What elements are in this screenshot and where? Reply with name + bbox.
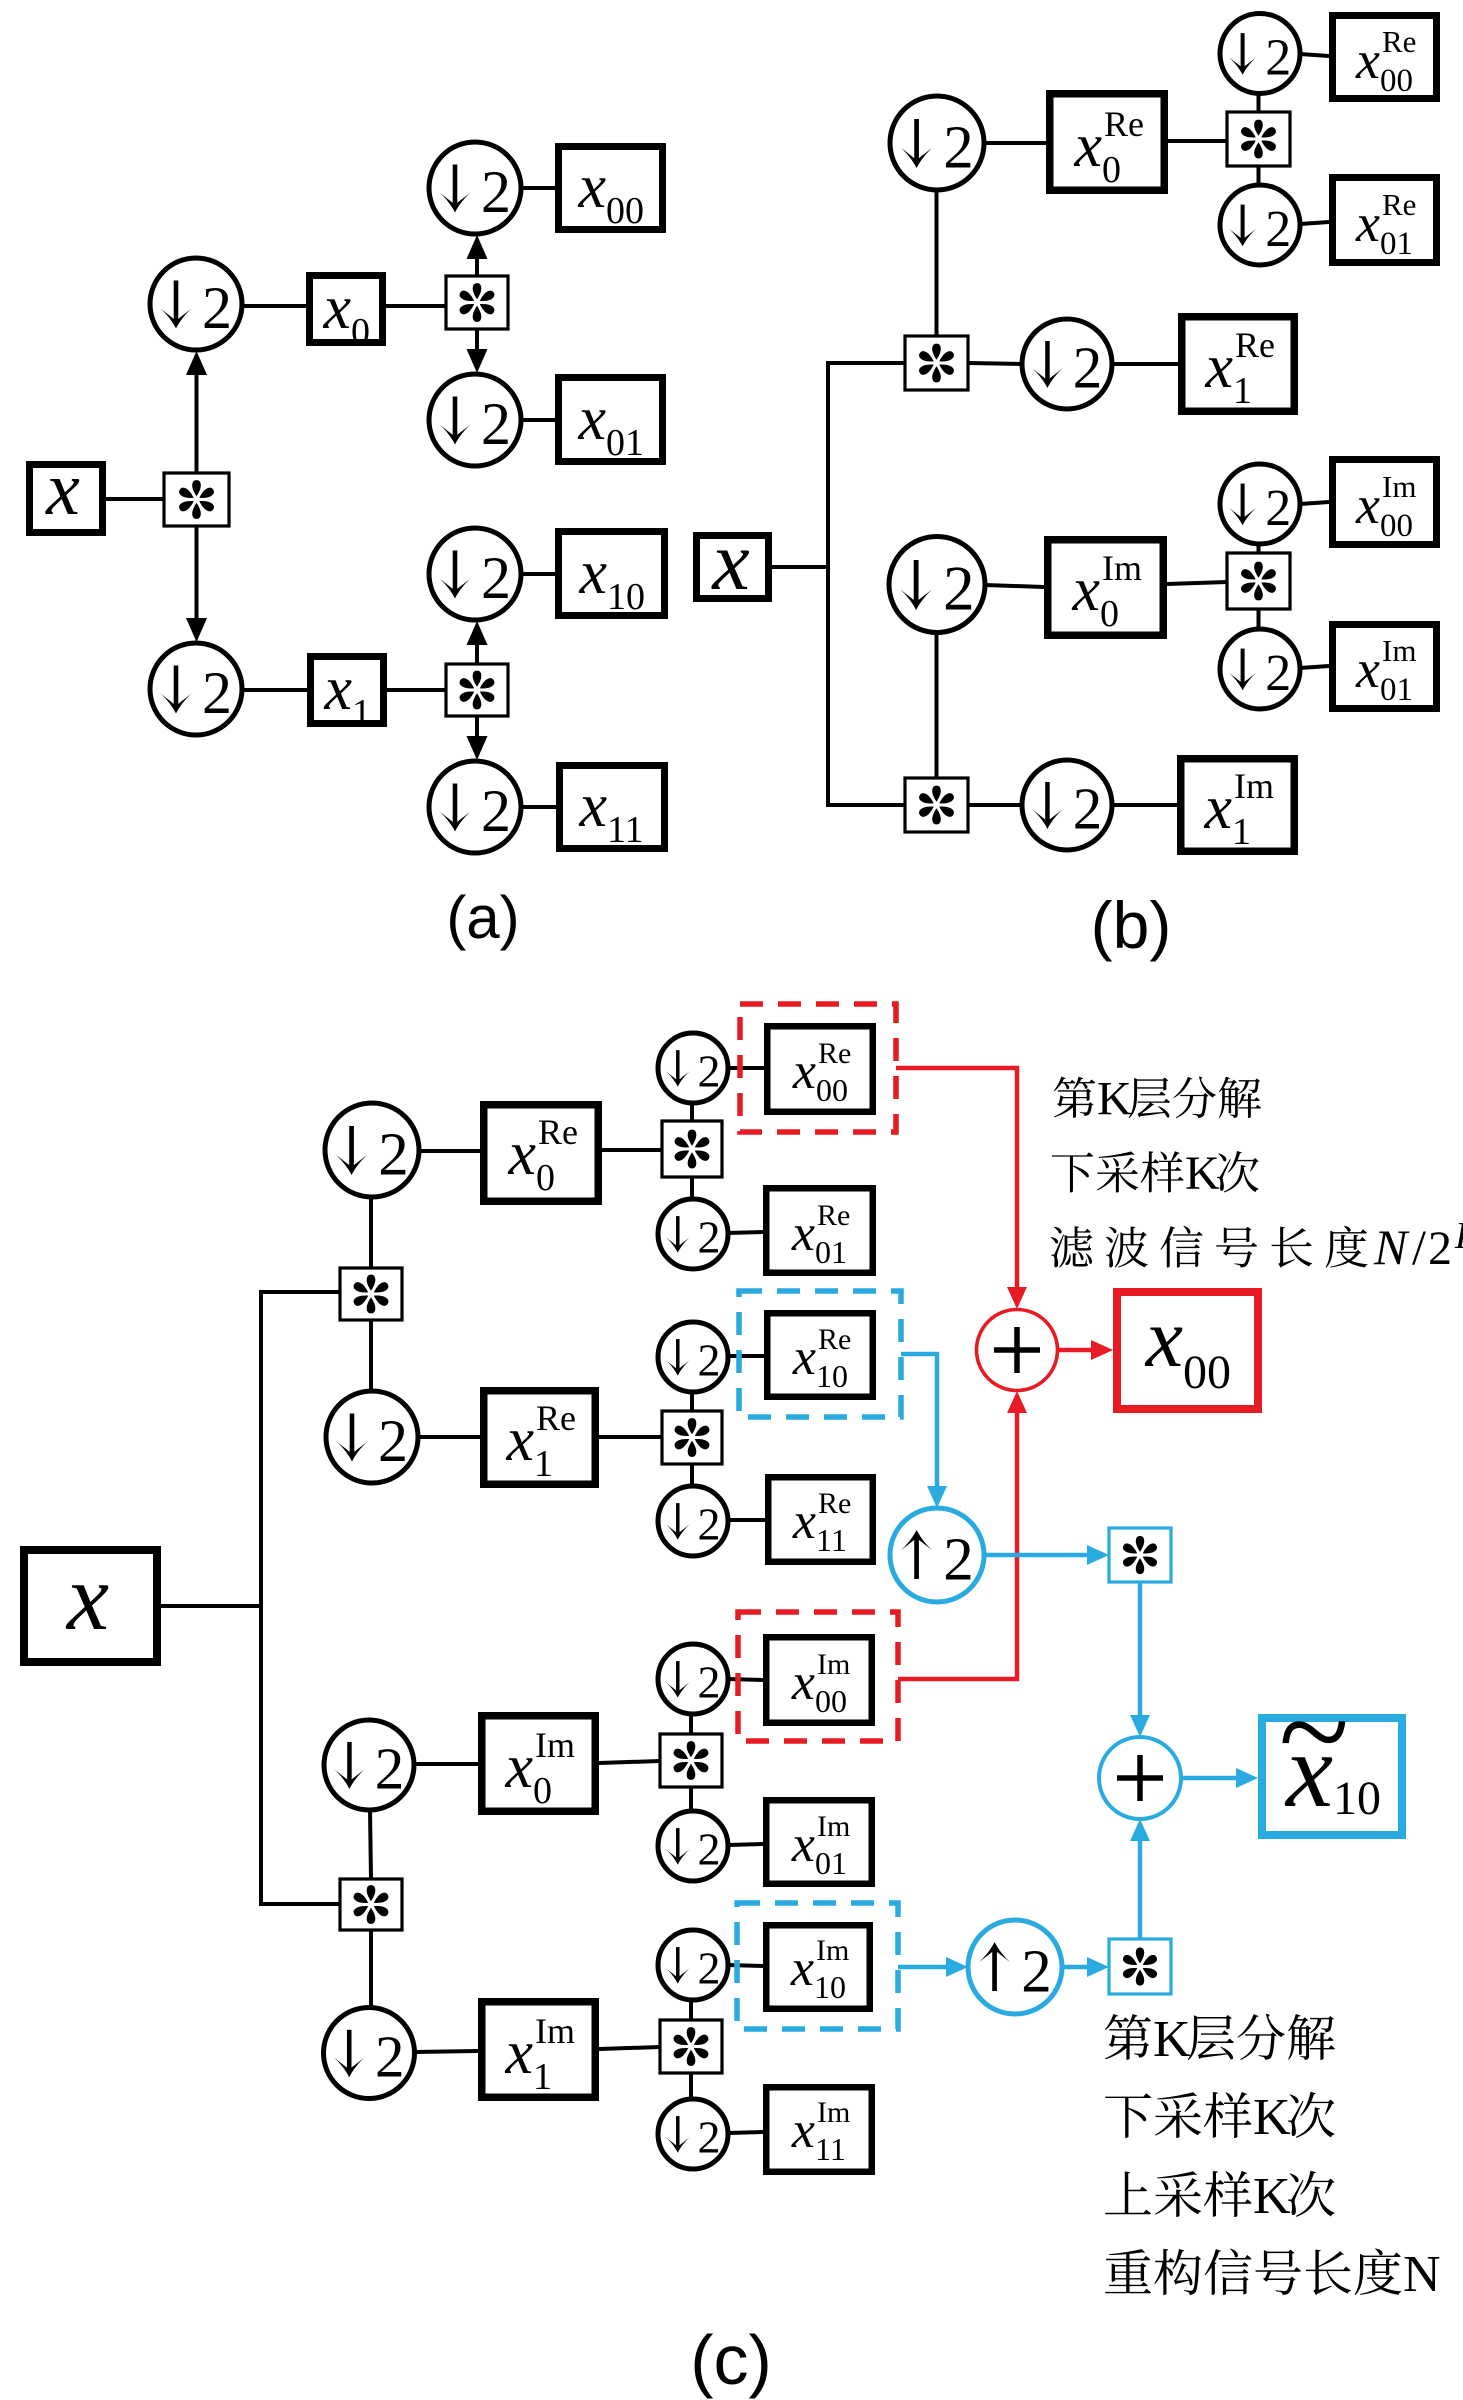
svg-text:2: 2 [1428, 1222, 1452, 1275]
svg-text:x: x [1073, 112, 1102, 180]
svg-text:01: 01 [815, 1234, 847, 1270]
wire conv up to downsample x00Re (fig c) [690, 1104, 694, 1121]
svg-text:10: 10 [816, 1358, 848, 1394]
wire conv down to downsample x1Im (fig c) [369, 1930, 373, 2009]
svg-text:x: x [1355, 475, 1380, 535]
svg-text:Im: Im [1102, 548, 1142, 588]
svg-text:2: 2 [697, 1211, 720, 1262]
svg-text:Im: Im [817, 1810, 850, 1843]
svg-text:2: 2 [375, 1735, 405, 1801]
svg-text:x: x [792, 1493, 816, 1550]
wire trunk to conv Re (fig c) [261, 1290, 340, 1294]
wire to box x0 Im (fig c) [414, 1762, 478, 1766]
svg-text:01: 01 [815, 1845, 847, 1881]
downsample circle 2 (x10 Im, fig c) [658, 1930, 728, 2000]
label text: downsample K times (blue path) [1105, 2093, 1151, 2138]
convolution box * (fig b, after x0 Im) [1227, 553, 1290, 609]
svg-text:x: x [65, 1544, 109, 1650]
svg-text:x: x [1144, 1292, 1183, 1385]
box x0 Im (fig c) [482, 1716, 596, 1812]
svg-text:1: 1 [1233, 370, 1252, 412]
svg-text:01: 01 [1380, 226, 1413, 262]
box x10 [559, 532, 665, 616]
svg-text:00: 00 [815, 1683, 847, 1719]
svg-text:Im: Im [817, 1648, 850, 1681]
svg-text:Re: Re [818, 1323, 851, 1356]
wire to box x0 Re (fig c) [419, 1149, 480, 1153]
arrow down to downsample x11 [475, 716, 479, 736]
wire x1Im to conv (fig c) [599, 2047, 660, 2049]
convolution box * (fig c, after x0 Re) [662, 1121, 722, 1177]
wire to box x10 Im (fig c) [728, 1965, 763, 1966]
box x0 Im [1048, 540, 1164, 636]
blue convolution box * (first) [1109, 1528, 1171, 1582]
svg-text:Re: Re [536, 1398, 576, 1438]
downsample circle 2 (x00 Re) [1220, 14, 1300, 94]
red box x00 (reconstructed) [1117, 1292, 1258, 1409]
svg-text:x: x [323, 655, 352, 723]
downsample circle 2 (x1 Re, fig c) [326, 1391, 418, 1483]
svg-text:Im: Im [535, 1725, 575, 1765]
svg-text:2: 2 [697, 1334, 720, 1385]
wire conv Re to downsample x1Re [968, 363, 1022, 364]
wire conv up to downsample x10Re (fig c) [690, 1393, 694, 1411]
wire trunk to conv Re [828, 361, 905, 365]
wire to box x1 Re (fig c) [418, 1435, 480, 1439]
wire conv Im to downsample x1Im [968, 803, 1022, 807]
box x00 Im (fig c) [766, 1637, 872, 1723]
svg-text:2: 2 [378, 1408, 408, 1474]
wire to box x0 Re [984, 141, 1046, 145]
red wire from x00 Im to adder [898, 1415, 1017, 1679]
downsample circle 2 (x10 Re, fig c) [658, 1322, 728, 1392]
wire to box x10 [521, 572, 555, 576]
arrow down to downsample x01 [475, 329, 479, 349]
convolution box * (fig a root) [164, 473, 229, 526]
svg-text:10: 10 [814, 1969, 846, 2005]
wire conv up to downsample x0Im [935, 633, 939, 778]
svg-text:~: ~ [1279, 1660, 1349, 1804]
svg-text:1: 1 [1232, 811, 1251, 853]
downsample circle 2 (x0 Re, fig c) [325, 1103, 419, 1197]
svg-text:2: 2 [481, 545, 511, 611]
wire conv down to downsample x11Im (fig c) [689, 2073, 693, 2100]
downsample circle 2 (x01 Re, fig c) [658, 1199, 728, 1269]
wire conv up to downsample x00Im (fig c) [689, 1715, 693, 1734]
box x (input, fig b) [697, 536, 769, 599]
box x1 Im [1181, 759, 1295, 852]
arrow conv up to downsample (fig a) [195, 375, 199, 473]
svg-text:Im: Im [1234, 766, 1274, 806]
svg-text:Im: Im [816, 1934, 849, 1967]
box x10 Re (fig c) [767, 1313, 873, 1397]
wire to box x0 Im [985, 585, 1044, 587]
wire conv down to downsample x01Re (fig c) [690, 1177, 694, 1200]
svg-text:2: 2 [375, 2024, 405, 2090]
wire trunk to conv Im (fig c) [261, 1902, 340, 1906]
convolution box * (fig b, Re root) [905, 336, 968, 390]
wire conv down to downsample x01Im [1257, 609, 1261, 630]
wire x1 to conv [387, 688, 446, 692]
svg-text:x: x [1071, 556, 1100, 624]
svg-text:Re: Re [817, 1199, 850, 1232]
convolution box * (fig a, after x1) [446, 664, 508, 716]
wire to box x11 [521, 805, 556, 809]
svg-text:2: 2 [1265, 645, 1291, 702]
wire to box x00 Re [1300, 54, 1329, 56]
downsample circle 2 (fig a, branch 1) [150, 643, 242, 735]
downsample circle 2 (x00 Im, fig c) [658, 1644, 728, 1714]
downsample circle 2 (x11 Im, fig c) [658, 2099, 728, 2169]
box x1 Re (fig c) [484, 1391, 596, 1485]
wire to box x00 [521, 186, 555, 190]
downsample circle 2 (x00 Im) [1220, 464, 1300, 544]
svg-text:x: x [791, 1205, 815, 1262]
wire to box x01 [521, 418, 555, 422]
svg-text:(c): (c) [690, 2321, 772, 2399]
svg-text:Re: Re [538, 1112, 578, 1152]
box x11 Im (fig c) [766, 2087, 872, 2172]
svg-text:x: x [45, 447, 80, 531]
wire to box x0 [242, 304, 306, 308]
downsample circle 2 (x01 Re) [1220, 185, 1300, 265]
svg-text:x: x [710, 515, 749, 608]
svg-text:N: N [1403, 2246, 1441, 2303]
wire x0Im to conv [1167, 582, 1227, 584]
svg-text:(b): (b) [1091, 888, 1172, 962]
svg-text:x: x [505, 1406, 534, 1474]
box x01 Re (fig c) [766, 1188, 873, 1273]
downsample circle 2 (x11 Re, fig c) [658, 1486, 728, 1556]
trunk wire vertical (fig b) [826, 361, 830, 807]
wire to box x11 Im (fig c) [728, 2132, 763, 2133]
svg-text:x: x [1203, 774, 1232, 842]
wire conv down to downsample x1Re (fig c) [369, 1320, 373, 1392]
arrow up to downsample x00 [475, 259, 479, 276]
trunk wire vertical (fig c) [259, 1290, 263, 1906]
svg-text:x: x [1355, 30, 1380, 90]
blue arrow from x10 Im to upsample [898, 1965, 946, 1970]
wire x0 to conv [386, 304, 446, 308]
svg-text:1: 1 [352, 692, 371, 734]
svg-text:00: 00 [606, 190, 644, 232]
svg-text:x: x [504, 1733, 533, 1801]
svg-text:2: 2 [481, 778, 511, 844]
svg-text:x: x [577, 153, 606, 221]
wire to box x01 Im (fig c) [728, 1844, 763, 1845]
svg-text:0: 0 [351, 311, 370, 353]
downsample circle 2 (x11) [429, 761, 521, 853]
svg-text:Re: Re [1235, 325, 1275, 365]
downsample circle 2 (fig a, branch 0) [150, 258, 242, 350]
downsample circle 2 (x01 Im, fig c) [658, 1811, 728, 1881]
svg-text:K: K [1454, 1215, 1463, 1257]
svg-text:2: 2 [202, 275, 232, 341]
wire x to trunk (fig b) [772, 565, 830, 569]
svg-text:00: 00 [1183, 1346, 1231, 1399]
convolution box * (fig a, after x0) [446, 276, 508, 329]
svg-text:x: x [504, 2019, 533, 2087]
label text: layer-K decomposition (red path) [1054, 1077, 1095, 1118]
wire circle to conv Im root vertical (fig c) [370, 1810, 371, 1879]
red arrow adder to box x00 [1057, 1348, 1091, 1353]
svg-text:Re: Re [1382, 187, 1416, 222]
svg-text:Im: Im [817, 2096, 850, 2129]
svg-text:x: x [1204, 333, 1233, 401]
convolution box * (fig c, after x1 Im) [660, 2020, 722, 2073]
svg-text:2: 2 [1265, 480, 1291, 537]
svg-text:0: 0 [536, 1157, 555, 1199]
box x (input, fig a) [30, 465, 103, 533]
svg-text:x: x [322, 274, 351, 342]
blue upsample circle 2 (second) [968, 1920, 1062, 2014]
svg-text:Im: Im [1382, 469, 1416, 504]
svg-text:00: 00 [1380, 508, 1413, 544]
red dashed rect around x00 Re [740, 1004, 896, 1132]
wire conv down to downsample x01Re [1257, 166, 1261, 186]
wire conv up to downsample x00Im [1257, 545, 1261, 553]
wire conv up to downsample x0Re (fig c) [369, 1198, 373, 1268]
downsample circle 2 (x1 Im) [1022, 760, 1112, 850]
svg-text:2: 2 [1265, 29, 1291, 86]
wire to box x10 Re (fig c) [728, 1354, 764, 1358]
svg-text:x: x [790, 1940, 814, 1997]
svg-text:2: 2 [943, 115, 974, 182]
wire to box x00 Im [1300, 502, 1329, 504]
box x0 Re (fig c) [484, 1105, 599, 1202]
red adder circle + [977, 1310, 1058, 1391]
blue arrow adder to box xt10 [1181, 1776, 1236, 1781]
svg-text:N: N [1373, 1219, 1410, 1275]
svg-text:2: 2 [697, 1045, 720, 1096]
svg-text:2: 2 [697, 1823, 720, 1874]
wire conv down to downsample x01Im (fig c) [689, 1787, 693, 1812]
svg-text:2: 2 [1073, 775, 1103, 841]
svg-text:00: 00 [1380, 63, 1413, 99]
svg-text:K: K [1153, 2011, 1191, 2068]
wire x to conv (fig a) [106, 497, 164, 501]
downsample circle 2 (x1 Im, fig c) [324, 2008, 415, 2099]
svg-text:11: 11 [815, 2131, 846, 2167]
convolution box * (fig b, Im root) [905, 778, 968, 832]
downsample circle 2 (x1 Re) [1022, 319, 1112, 409]
downsample circle 2 (x00) [429, 142, 521, 234]
box x00 Re [1333, 16, 1437, 99]
svg-text:2: 2 [202, 660, 232, 726]
box x00 [559, 147, 663, 230]
downsample circle 2 (x01 Im) [1220, 629, 1300, 709]
svg-text:K: K [1185, 1147, 1220, 1200]
convolution box * (fig c, Im root) [340, 1879, 402, 1930]
svg-text:1: 1 [533, 2056, 552, 2098]
wire x1Re to conv (fig c) [599, 1435, 662, 1439]
svg-text:01: 01 [606, 422, 644, 464]
wire x0Im to conv (fig c) [599, 1761, 660, 1763]
svg-text:2: 2 [943, 554, 975, 624]
convolution box * (fig c, after x0 Im) [660, 1734, 722, 1787]
wire to box x1 Re [1112, 362, 1178, 366]
svg-text:0: 0 [1100, 593, 1119, 635]
svg-text:x: x [791, 1816, 815, 1873]
wire to box x1 [242, 688, 307, 692]
svg-text:0: 0 [1102, 149, 1121, 191]
wire trunk to conv Im [828, 803, 905, 807]
wire to box x01 Re (fig c) [728, 1232, 763, 1233]
svg-text:10: 10 [607, 576, 645, 618]
blue convolution box * (second) [1109, 1939, 1171, 1994]
wire to box x1 Im [1112, 803, 1177, 807]
wire x0Re to conv (fig c) [602, 1148, 662, 1152]
wire conv up to downsample x10Im (fig c) [689, 2001, 693, 2020]
box x10 Im (fig c) [766, 1925, 870, 2009]
blue arrow upsample to conv (second) [1062, 1965, 1087, 1970]
box x01 [559, 378, 663, 462]
svg-text:2: 2 [943, 1527, 974, 1594]
wire to box x11 Re (fig c) [728, 1518, 765, 1522]
svg-text:K: K [1097, 1073, 1132, 1126]
box x01 Im (fig c) [766, 1800, 872, 1884]
blue wire conv up to adder [1138, 1841, 1143, 1939]
blue arrow upsample to conv [984, 1553, 1087, 1558]
svg-text:00: 00 [816, 1072, 848, 1108]
red dashed rect around x00 Im [738, 1612, 898, 1741]
svg-text:Im: Im [535, 2011, 575, 2051]
svg-text:x: x [791, 1654, 815, 1711]
svg-text:2: 2 [378, 1122, 409, 1189]
box x0 [310, 276, 383, 343]
convolution box * (fig b, after x0 Re) [1227, 112, 1290, 166]
wire to box x00 Re (fig c) [728, 1066, 764, 1070]
svg-text:x: x [578, 539, 607, 607]
svg-text:2: 2 [1265, 201, 1291, 258]
svg-text:2: 2 [1073, 334, 1103, 400]
svg-text:/: / [1412, 1219, 1426, 1275]
svg-text:x: x [507, 1120, 536, 1188]
box x01 Im [1333, 625, 1437, 709]
box x00 Re (fig c) [767, 1026, 873, 1112]
box x01 Re [1333, 178, 1437, 263]
svg-text:2: 2 [481, 391, 511, 457]
svg-text:2: 2 [1021, 1939, 1052, 2006]
downsample circle 2 (x0 Im, fig c) [324, 1720, 414, 1810]
svg-text:2: 2 [697, 1942, 720, 1993]
label text: layer-K decomposition (blue path) [1105, 2014, 1151, 2060]
svg-text:Re: Re [1382, 24, 1416, 59]
svg-text:K: K [1253, 2168, 1291, 2225]
svg-text:K: K [1253, 2089, 1291, 2146]
svg-text:x: x [791, 2102, 815, 2159]
label text: filtered signal length N/2^K [1051, 1226, 1093, 1267]
svg-text:x: x [792, 1043, 816, 1100]
svg-text:2: 2 [697, 2111, 720, 2162]
wire to box x01 Im [1300, 666, 1329, 668]
box x1 Re [1182, 317, 1295, 412]
convolution box * (fig c, Re root) [340, 1268, 402, 1320]
blue wire from x10 Re to upsample [901, 1354, 937, 1484]
svg-text:Re: Re [818, 1487, 851, 1520]
blue wire conv to adder [1138, 1582, 1143, 1715]
wire x0Re to conv [1168, 139, 1227, 143]
box x00 Im [1333, 460, 1437, 545]
svg-text:2: 2 [697, 1498, 720, 1549]
svg-text:2: 2 [697, 1656, 720, 1707]
downsample circle 2 (x10) [429, 528, 521, 620]
downsample circle 2 (x0 Re) [890, 96, 984, 190]
convolution box * (fig c, after x1 Re) [662, 1411, 722, 1464]
svg-text:11: 11 [816, 1522, 847, 1558]
red wire from x00 Re to adder [896, 1068, 1017, 1285]
wire conv up to downsample x0Re [935, 190, 939, 336]
downsample circle 2 (x01) [429, 374, 521, 466]
blue upsample circle 2 (first) [890, 1508, 984, 1602]
box x (input, fig c) [24, 1550, 157, 1662]
blue adder circle + [1099, 1737, 1181, 1819]
svg-text:x: x [578, 772, 607, 840]
svg-text:0: 0 [533, 1770, 552, 1812]
arrow conv down to downsample (fig a) [195, 526, 199, 618]
svg-text:x: x [577, 385, 606, 453]
wire x to trunk (fig c) [161, 1604, 263, 1608]
box x1 Im (fig c) [482, 2002, 596, 2098]
label text: upsample K times (blue path) [1105, 2172, 1151, 2215]
wire to box x00 Im (fig c) [728, 1679, 763, 1680]
svg-text:x: x [1355, 193, 1380, 253]
svg-text:x: x [1355, 639, 1380, 699]
svg-text:01: 01 [1380, 672, 1413, 708]
downsample circle 2 (x0 Im) [889, 537, 985, 633]
svg-text:1: 1 [534, 1443, 553, 1485]
blue dashed rect around x10 Re [739, 1291, 901, 1417]
blue dashed rect around x10 Im [737, 1903, 898, 2029]
svg-text:x: x [792, 1329, 816, 1386]
box x0 Re [1050, 94, 1165, 191]
blue box x~10 (reconstructed) [1262, 1718, 1402, 1835]
box x1 [311, 657, 384, 724]
wire to box x01 Re [1300, 222, 1329, 224]
downsample circle 2 (x00 Re, fig c) [658, 1033, 728, 1103]
svg-text:11: 11 [607, 809, 644, 851]
wire conv up to downsample x00Re [1257, 94, 1261, 112]
svg-text:Im: Im [1382, 633, 1416, 668]
wire to box x1 Im (fig c) [414, 2051, 478, 2052]
label text: downsample K times (red path) [1052, 1152, 1093, 1192]
wire conv down to downsample x11Re (fig c) [690, 1464, 694, 1487]
svg-text:(a): (a) [446, 884, 519, 951]
label text: reconstructed signal length N [1105, 2249, 1151, 2293]
box x11 [560, 766, 665, 849]
svg-text:2: 2 [481, 159, 511, 225]
box x11 Re (fig c) [768, 1477, 873, 1562]
svg-text:Re: Re [818, 1037, 851, 1070]
arrow up to downsample x10 [475, 645, 479, 664]
svg-text:Re: Re [1104, 104, 1144, 144]
